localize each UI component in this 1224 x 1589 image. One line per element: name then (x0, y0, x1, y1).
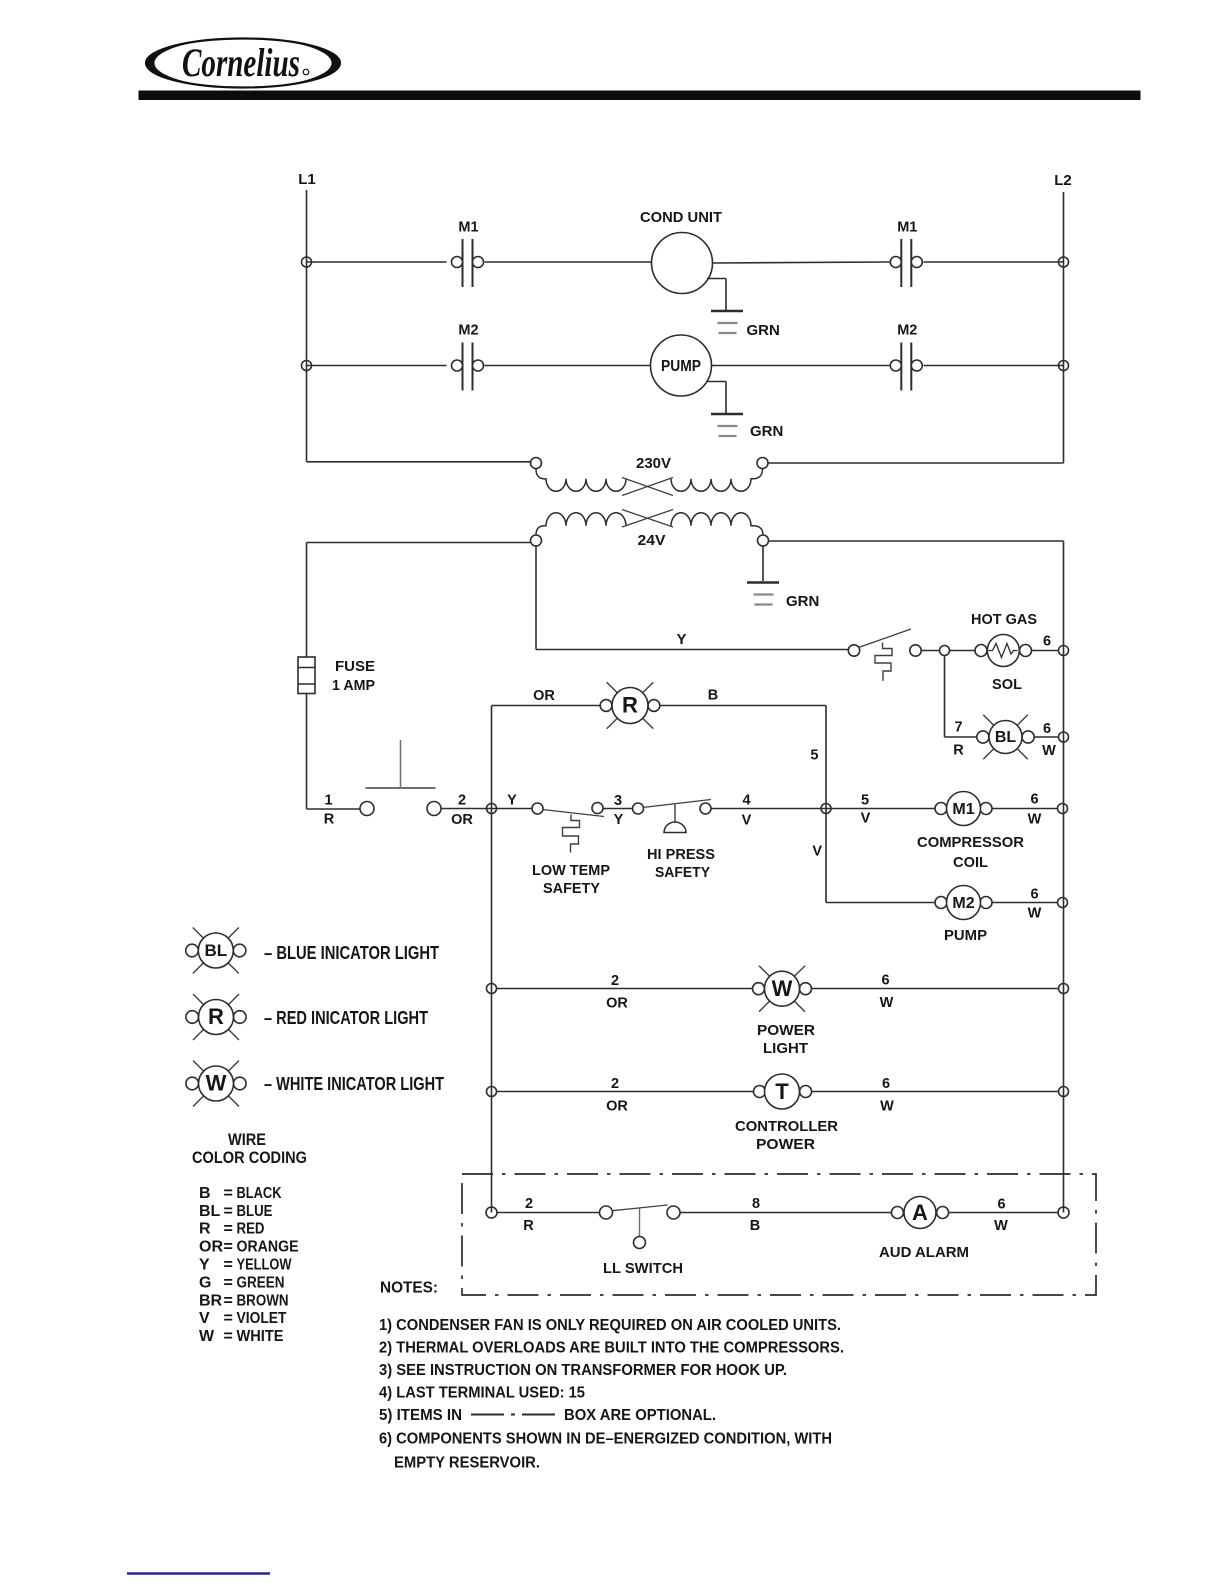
terminal (right rail, M2) (1058, 898, 1068, 908)
wire (812, 988, 1059, 990)
svg-text:POWER: POWER (756, 1136, 815, 1153)
svg-text:SOL: SOL (992, 676, 1022, 693)
svg-text:1: 1 (324, 793, 332, 809)
wire left rail lower (306, 694, 308, 810)
svg-text:COIL: COIL (953, 854, 988, 871)
svg-text:V: V (861, 811, 871, 827)
svg-text:– RED INICATOR LIGHT: – RED INICATOR LIGHT (264, 1008, 428, 1028)
svg-text:OR: OR (606, 1099, 628, 1115)
junction (487, 804, 497, 814)
svg-text:1) CONDENSER FAN IS ONLY REQUI: 1) CONDENSER FAN IS ONLY REQUIRED ON AIR… (379, 1317, 841, 1334)
svg-text:M2: M2 (458, 323, 478, 339)
svg-text:LOW TEMP: LOW TEMP (532, 862, 610, 879)
svg-text:W: W (880, 995, 894, 1011)
svg-text:=: = (224, 1310, 233, 1327)
wire (713, 262, 890, 263)
svg-text:=: = (224, 1328, 233, 1345)
contact M1 (right) (900, 239, 902, 287)
svg-text:L1: L1 (298, 171, 316, 188)
wire rail B/V (825, 706, 827, 903)
svg-text:R: R (523, 1218, 534, 1234)
junction node 5 (821, 804, 831, 814)
svg-text:HI PRESS: HI PRESS (647, 846, 715, 863)
svg-text:BLUE: BLUE (237, 1203, 273, 1220)
svg-text:=: = (224, 1292, 233, 1309)
wire (307, 365, 447, 367)
svg-text:5: 5 (861, 793, 869, 809)
svg-text:M2: M2 (952, 895, 974, 912)
svg-text:BL: BL (204, 941, 227, 960)
svg-text:BL: BL (199, 1203, 221, 1220)
svg-text:LL SWITCH: LL SWITCH (603, 1260, 683, 1277)
svg-text:=: = (224, 1185, 233, 1202)
wire (497, 1212, 599, 1214)
wire (485, 261, 652, 263)
wire (1032, 650, 1059, 652)
lamp R (607, 682, 618, 693)
svg-text:WHITE: WHITE (237, 1328, 284, 1345)
svg-text:=: = (224, 1274, 233, 1291)
svg-text:Y: Y (507, 793, 517, 809)
svg-text:=: = (224, 1257, 233, 1274)
ground GRN (pump) (706, 381, 726, 383)
svg-text:BLACK: BLACK (237, 1185, 282, 1202)
terminal (right rail, LL row) (1058, 1207, 1069, 1218)
alarm A AUD ALARM (891, 1207, 903, 1219)
svg-text:6) COMPONENTS SHOWN IN DE–ENER: 6) COMPONENTS SHOWN IN DE–ENERGIZED COND… (379, 1430, 832, 1447)
svg-text:W: W (1028, 812, 1042, 828)
svg-text:A: A (912, 1200, 928, 1225)
legend lamp BL (193, 928, 204, 939)
wire (762, 546, 764, 581)
wire (812, 1091, 1059, 1093)
svg-text:B: B (708, 688, 718, 704)
svg-text:EMPTY RESERVOIR.: EMPTY RESERVOIR. (394, 1454, 540, 1471)
fuse F1 1 AMP (298, 657, 315, 694)
terminal (right rail, M1) (1058, 804, 1068, 814)
svg-text:W: W (1028, 906, 1042, 922)
svg-text:GREEN: GREEN (237, 1274, 285, 1291)
switch (hot gas level switch) (848, 645, 859, 656)
svg-text:SAFETY: SAFETY (543, 880, 600, 897)
terminal (right rail, controller) (1059, 1087, 1069, 1097)
svg-text:R: R (199, 1221, 211, 1238)
wire (497, 1091, 754, 1093)
svg-text:L2: L2 (1054, 172, 1072, 189)
svg-text:1 AMP: 1 AMP (332, 677, 375, 694)
wire (769, 540, 1064, 542)
terminal (L1, rung 2) (302, 361, 312, 371)
wire (441, 808, 532, 810)
terminal (right rail, power light) (1059, 984, 1069, 994)
contact M2 (left) (462, 343, 464, 391)
coil T CONTROLLER POWER (754, 1086, 766, 1098)
svg-text:SAFETY: SAFETY (655, 864, 710, 881)
svg-text:R: R (622, 693, 638, 718)
svg-text:6: 6 (882, 1076, 890, 1092)
svg-text:B: B (750, 1218, 760, 1234)
svg-text:W: W (994, 1218, 1008, 1234)
svg-text:– BLUE INICATOR LIGHT: – BLUE INICATOR LIGHT (264, 943, 439, 963)
svg-text:W: W (206, 1071, 227, 1096)
svg-text:=: = (224, 1239, 233, 1256)
svg-text:COMPRESSOR: COMPRESSOR (917, 834, 1024, 851)
wire sub-rail (491, 706, 493, 1213)
svg-text:T: T (775, 1079, 789, 1104)
svg-text:Cornelius: Cornelius (182, 40, 300, 85)
svg-text:7: 7 (954, 720, 962, 736)
wire Y (536, 649, 848, 651)
terminal (sub-rail, controller) (487, 1087, 497, 1097)
transformer T1 secondary 24V (531, 535, 542, 546)
svg-text:OR: OR (606, 996, 628, 1012)
svg-text:M2: M2 (897, 323, 917, 339)
svg-text:W: W (1042, 743, 1056, 759)
wire (826, 902, 935, 904)
solenoid HOT GAS SOL (975, 645, 987, 657)
transformer T1 primary 230V (531, 458, 542, 469)
terminal (sub-rail, LL row) (486, 1207, 497, 1218)
svg-text:BOX ARE OPTIONAL.: BOX ARE OPTIONAL. (564, 1407, 716, 1424)
wire (768, 462, 1064, 464)
svg-text:6: 6 (1030, 792, 1038, 808)
svg-text:=: = (224, 1203, 233, 1220)
terminal (right rail, sol) (1059, 646, 1069, 656)
wire left rail upper (306, 543, 308, 658)
wire (535, 546, 537, 650)
svg-text:PUMP: PUMP (944, 927, 987, 944)
svg-text:M1: M1 (897, 220, 917, 236)
svg-text:CONTROLLER: CONTROLLER (735, 1118, 838, 1135)
svg-text:6: 6 (1043, 634, 1051, 650)
svg-text:OR: OR (199, 1239, 223, 1256)
coil M2 PUMP (935, 897, 947, 909)
svg-text:6: 6 (1030, 887, 1038, 903)
wire (603, 808, 632, 810)
svg-text:COND UNIT: COND UNIT (640, 209, 722, 226)
svg-text:=: = (224, 1221, 233, 1238)
svg-text:5: 5 (810, 748, 818, 764)
wire (497, 988, 754, 990)
svg-text:NOTES:: NOTES: (380, 1280, 438, 1297)
wire (949, 1212, 1058, 1214)
contact M1 (left) (462, 239, 464, 287)
legend lamp R (193, 994, 204, 1005)
terminal (right rail, BL) (1059, 732, 1069, 742)
svg-text:Y: Y (614, 812, 624, 828)
wire (307, 542, 531, 544)
svg-text:6: 6 (1043, 721, 1051, 737)
svg-text:M1: M1 (952, 801, 974, 818)
svg-text:OR: OR (451, 812, 473, 828)
svg-text:6: 6 (997, 1197, 1005, 1213)
wire L2 rail (1063, 192, 1065, 463)
svg-text:6: 6 (881, 973, 889, 989)
svg-text:2: 2 (611, 973, 619, 989)
svg-text:5) ITEMS IN: 5) ITEMS IN (379, 1407, 462, 1424)
svg-text:VIOLET: VIOLET (237, 1310, 287, 1327)
svg-text:Y: Y (676, 631, 686, 648)
svg-text:M1: M1 (458, 220, 478, 236)
wire (1034, 736, 1059, 738)
svg-text:GRN: GRN (747, 322, 780, 339)
wire right rail (1063, 541, 1065, 1213)
wire (924, 261, 1064, 263)
terminal (L2, rung 1) (1059, 257, 1069, 267)
svg-text:2: 2 (611, 1076, 619, 1092)
wire (992, 902, 1057, 904)
lamp W POWER LIGHT (759, 966, 770, 977)
wire (485, 365, 651, 367)
wire (921, 650, 939, 652)
svg-text:G: G (199, 1274, 211, 1291)
svg-text:2) THERMAL OVERLOADS ARE BUILT: 2) THERMAL OVERLOADS ARE BUILT INTO THE … (379, 1339, 844, 1356)
svg-text:230V: 230V (636, 455, 671, 472)
svg-text:BROWN: BROWN (237, 1292, 289, 1309)
footer rule (127, 1572, 270, 1575)
svg-text:R: R (208, 1004, 224, 1029)
wire B (660, 705, 827, 707)
svg-text:B: B (199, 1185, 211, 1202)
switch HI PRESS SAFETY (633, 803, 644, 814)
switch LL SWITCH (600, 1206, 613, 1219)
header rule (139, 91, 1141, 101)
svg-text:V: V (812, 844, 822, 860)
svg-text:POWER: POWER (757, 1022, 815, 1039)
Cornelius logo (146, 39, 340, 88)
svg-text:W: W (772, 976, 793, 1001)
switch LOW TEMP SAFETY (532, 803, 543, 814)
wire (945, 736, 978, 738)
svg-text:W: W (199, 1328, 215, 1345)
terminal node (940, 646, 950, 656)
svg-text:WIRE: WIRE (228, 1130, 266, 1149)
svg-text:GRN: GRN (786, 593, 819, 610)
wire (307, 808, 361, 810)
svg-text:FUSE: FUSE (335, 658, 375, 675)
svg-text:BL: BL (995, 729, 1017, 746)
svg-text:– WHITE INICATOR LIGHT: – WHITE INICATOR LIGHT (264, 1074, 444, 1094)
svg-text:3: 3 (614, 793, 622, 809)
ground GRN (transformer) (747, 581, 779, 584)
svg-text:COLOR CODING: COLOR CODING (192, 1148, 307, 1167)
optional items box (dash-dot) (462, 1174, 1096, 1295)
lamp BL (983, 715, 994, 726)
wire (680, 1212, 891, 1214)
svg-text:V: V (199, 1310, 210, 1327)
wire (950, 650, 975, 652)
wire L1 rail (306, 190, 308, 462)
terminal (L2, rung 2) (1059, 361, 1069, 371)
wire (944, 656, 946, 737)
wire (712, 365, 890, 367)
ground GRN (cond unit) (707, 278, 726, 280)
legend lamp W (193, 1061, 204, 1072)
wire (307, 461, 532, 463)
wire (492, 705, 602, 707)
svg-text:YELLOW: YELLOW (237, 1257, 293, 1274)
svg-text:ORANGE: ORANGE (237, 1239, 299, 1256)
svg-text:2: 2 (458, 793, 466, 809)
wire (992, 808, 1057, 810)
svg-text:BR: BR (199, 1292, 223, 1309)
svg-text:Y: Y (199, 1257, 210, 1274)
svg-text:V: V (742, 813, 752, 829)
svg-text:RED: RED (237, 1221, 265, 1238)
svg-text:W: W (880, 1099, 894, 1115)
motor COND UNIT (652, 233, 713, 294)
svg-text:AUD ALARM: AUD ALARM (879, 1244, 969, 1261)
motor PUMP (651, 335, 712, 396)
svg-text:24V: 24V (638, 532, 666, 549)
svg-text:OR: OR (533, 688, 555, 704)
svg-text:R: R (953, 743, 964, 759)
wire (307, 261, 447, 263)
svg-text:2: 2 (525, 1196, 533, 1212)
terminal (sub-rail, power light) (487, 984, 497, 994)
svg-text:R: R (324, 812, 335, 828)
terminal (L1, rung 1) (302, 257, 312, 267)
wire (711, 808, 935, 810)
wire (924, 365, 1064, 367)
svg-text:HOT GAS: HOT GAS (971, 611, 1037, 628)
svg-text:3) SEE INSTRUCTION ON TRANSFOR: 3) SEE INSTRUCTION ON TRANSFORMER FOR HO… (379, 1362, 787, 1379)
svg-text:4: 4 (742, 793, 750, 809)
svg-text:GRN: GRN (750, 423, 783, 440)
svg-text:4) LAST TERMINAL USED: 15: 4) LAST TERMINAL USED: 15 (379, 1384, 585, 1401)
svg-text:PUMP: PUMP (661, 358, 701, 375)
contact M2 (right) (900, 343, 902, 391)
svg-text:8: 8 (752, 1196, 760, 1212)
coil M1 COMPRESSOR COIL (935, 803, 947, 815)
svg-text:LIGHT: LIGHT (763, 1040, 808, 1057)
